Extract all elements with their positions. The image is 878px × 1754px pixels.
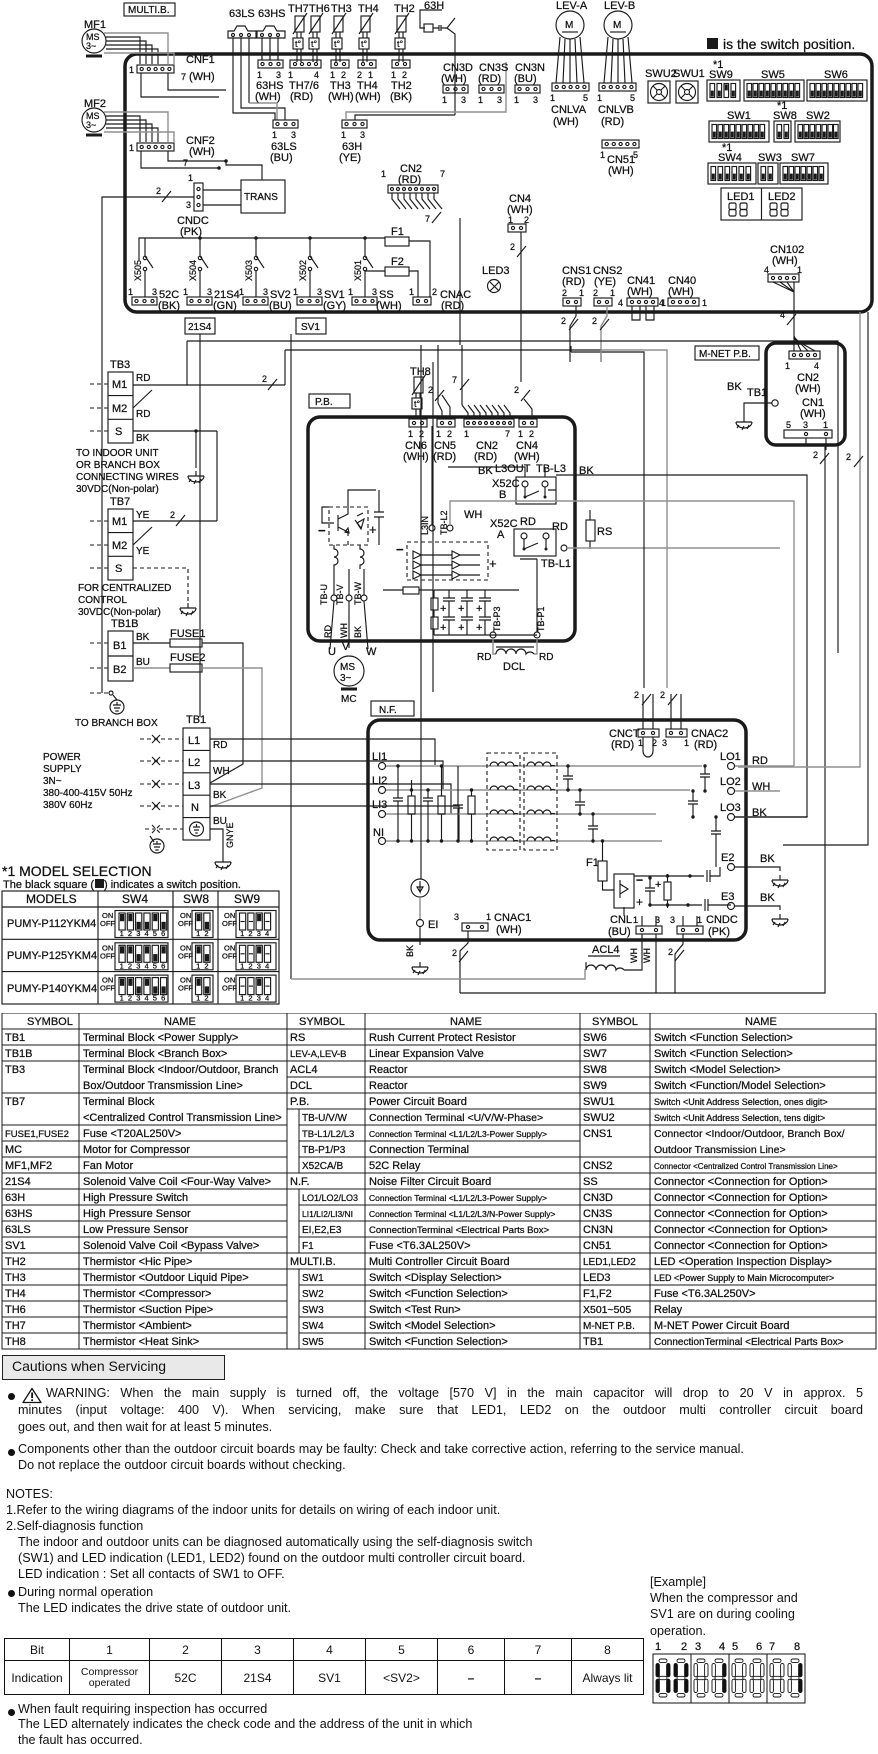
svg-text:(PK): (PK) [708, 926, 730, 938]
svg-text:Connection Terminal <U/V/W-Pha: Connection Terminal <U/V/W-Phase> [369, 1112, 543, 1124]
fuse F2 [379, 256, 418, 297]
switch SW7 [780, 152, 828, 184]
svg-text:63H: 63H [5, 1192, 25, 1204]
svg-text:X505: X505 [133, 260, 143, 281]
multi controller circuit board MULTI.B [125, 54, 872, 312]
svg-text:TH6: TH6 [309, 3, 330, 15]
svg-text:LO1/LO2/LO3: LO1/LO2/LO3 [302, 1193, 358, 1203]
svg-text:N.F.: N.F. [379, 705, 397, 716]
relay contact X501 [353, 238, 373, 297]
svg-text:SYMBOL: SYMBOL [27, 1016, 73, 1028]
TB7 wires [133, 521, 217, 545]
svg-text:(RD): (RD) [601, 116, 624, 128]
svg-text:SW3: SW3 [302, 1305, 324, 1316]
symbol table column 3 [580, 1013, 876, 1349]
relay contact X503 [244, 238, 264, 297]
svg-text:2: 2 [248, 961, 252, 970]
connector CNLVA (WH) [550, 83, 589, 128]
svg-text:MODELS: MODELS [26, 892, 77, 906]
svg-text:LED <Operation Inspection Disp: LED <Operation Inspection Display> [654, 1256, 832, 1268]
svg-text:PUMY-P112YKM4: PUMY-P112YKM4 [7, 918, 96, 930]
connector TH7/6 (RD) [288, 60, 321, 103]
svg-text:SW3: SW3 [758, 152, 782, 164]
fan motor MF2 [82, 98, 106, 135]
svg-text:2: 2 [402, 70, 407, 80]
svg-text:1: 1 [183, 287, 188, 297]
svg-text:TB-L1/L2/L3: TB-L1/L2/L3 [302, 1129, 354, 1140]
svg-text:RD: RD [323, 625, 333, 638]
thermistor TH4 [358, 3, 379, 62]
M-NET P.B. label [695, 346, 759, 360]
svg-text:1: 1 [464, 429, 469, 439]
svg-text:TB-L2: TB-L2 [439, 510, 449, 535]
svg-text:1: 1 [240, 929, 244, 938]
svg-text:7: 7 [425, 214, 430, 224]
svg-text:SYMBOL: SYMBOL [299, 1016, 345, 1028]
TB-P1 terminal [520, 559, 546, 638]
svg-text:4: 4 [314, 70, 319, 80]
svg-text:LED1,LED2: LED1,LED2 [583, 1257, 636, 1268]
svg-text:Thermistor <Compressor>: Thermistor <Compressor> [83, 1288, 211, 1300]
svg-text:The black square (: The black square ( [3, 879, 94, 891]
svg-text:Relay: Relay [654, 1304, 683, 1316]
svg-text:1: 1 [697, 915, 702, 925]
svg-text:Thermistor <Heat Sink>: Thermistor <Heat Sink> [83, 1336, 199, 1348]
svg-text:MULTI.B.: MULTI.B. [290, 1256, 336, 1268]
svg-text:1: 1 [408, 429, 413, 439]
svg-text:Connection Terminal <L1/L2/L3-: Connection Terminal <L1/L2/L3-Power Supp… [369, 1129, 547, 1139]
svg-text:7: 7 [181, 72, 186, 82]
svg-text:CNLVA: CNLVA [551, 104, 587, 116]
thermistor TH7 [288, 3, 309, 62]
svg-text:2: 2 [204, 929, 208, 938]
svg-text:3: 3 [803, 420, 808, 430]
svg-text:1: 1 [293, 287, 298, 297]
connector SV1 (GY) [293, 287, 346, 312]
terminal NI [373, 827, 662, 845]
switch position note [707, 36, 855, 52]
svg-text:2: 2 [562, 288, 567, 298]
svg-text:L1: L1 [188, 735, 200, 747]
svg-text:Motor for Compressor: Motor for Compressor [83, 1144, 190, 1156]
svg-text:2: 2 [592, 316, 597, 326]
svg-text:M1: M1 [112, 379, 127, 391]
svg-text:Fuse <T6.3AL250V>: Fuse <T6.3AL250V> [654, 1288, 756, 1300]
svg-text:30VDC(Non-polar): 30VDC(Non-polar) [76, 484, 159, 495]
connector 63HS (WH) [255, 54, 284, 103]
connector CN6 (WH) [403, 419, 429, 463]
connector CNS2 (YE) [592, 265, 622, 362]
svg-text:2: 2 [529, 429, 534, 439]
svg-text:Linear Expansion Valve: Linear Expansion Valve [369, 1048, 484, 1060]
connector CN5 (RD) [428, 345, 456, 463]
example block [650, 1574, 798, 1639]
svg-text:1: 1 [330, 70, 335, 80]
L3IN [420, 426, 435, 535]
svg-text:3: 3 [136, 929, 140, 938]
svg-text:63HS: 63HS [258, 8, 286, 20]
svg-text:1: 1 [478, 95, 483, 105]
svg-text:TH3: TH3 [331, 3, 352, 15]
svg-text:3: 3 [276, 70, 281, 80]
svg-text:SW6: SW6 [583, 1032, 607, 1044]
svg-text:30VDC(Non-polar): 30VDC(Non-polar) [78, 607, 161, 618]
svg-text:t°: t° [311, 39, 318, 49]
svg-text:CNDC: CNDC [706, 914, 738, 926]
svg-text:2: 2 [813, 450, 818, 460]
svg-text:FUSE1,FUSE2: FUSE1,FUSE2 [5, 1129, 69, 1140]
svg-text:TH2: TH2 [5, 1256, 26, 1268]
power circuit board P.B. [308, 417, 575, 641]
ground TB7 [180, 603, 196, 616]
7-seg pair box [653, 1654, 691, 1703]
svg-text:6: 6 [756, 1641, 762, 1653]
svg-text:CN3N: CN3N [583, 1224, 613, 1236]
svg-text:+: + [440, 622, 446, 634]
svg-text:+: + [458, 622, 464, 634]
svg-text:2: 2 [170, 510, 175, 520]
svg-text:(RD): (RD) [474, 451, 497, 463]
notes [6, 1486, 533, 1583]
connector CN41 (WH) [618, 275, 666, 320]
thermistor TH2 [394, 3, 415, 62]
svg-text:(RD): (RD) [433, 451, 456, 463]
svg-text:Terminal Block <Indoor/Outdoor: Terminal Block <Indoor/Outdoor, Branch [83, 1064, 278, 1076]
svg-text:BK: BK [405, 945, 415, 957]
terminal LI2 [372, 775, 690, 794]
svg-text:Switch <Display Selection>: Switch <Display Selection> [369, 1272, 502, 1284]
svg-text:SW1: SW1 [302, 1273, 324, 1284]
connector CNF1 [129, 54, 215, 83]
svg-text:(RD): (RD) [290, 91, 313, 103]
svg-text:SWU2: SWU2 [583, 1112, 615, 1124]
svg-text:7: 7 [505, 429, 510, 439]
connector 63LS (BU) [270, 120, 298, 164]
svg-text:CN3D: CN3D [583, 1192, 613, 1204]
svg-text:LO1: LO1 [720, 751, 741, 763]
svg-text:1: 1 [129, 65, 134, 75]
svg-text:1: 1 [129, 143, 134, 153]
resistor RS [586, 510, 612, 549]
connector CNCT (RD) [609, 690, 659, 757]
connector CNF2 [129, 135, 215, 168]
switch SW5 [744, 69, 804, 101]
svg-text:3: 3 [372, 287, 377, 297]
svg-text:(GY): (GY) [323, 300, 346, 312]
svg-text:U: U [328, 646, 336, 658]
svg-text:) indicates a switch position.: ) indicates a switch position. [104, 879, 241, 891]
svg-text:TB-L1: TB-L1 [541, 558, 571, 570]
svg-text:SW8: SW8 [583, 1064, 607, 1076]
svg-text:1: 1 [341, 130, 346, 140]
svg-text:1: 1 [486, 912, 491, 922]
svg-text:2: 2 [204, 994, 208, 1003]
fuse F1 [385, 226, 430, 297]
svg-text:(RD): (RD) [441, 300, 464, 312]
connector CN4 (WH) pb [514, 385, 540, 463]
svg-text:3: 3 [257, 929, 261, 938]
svg-text:Reactor: Reactor [369, 1080, 408, 1092]
svg-text:RD: RD [213, 740, 227, 751]
TB1 wires to N.F. [210, 739, 459, 841]
relay contact X502 [298, 238, 318, 297]
svg-text:TB7: TB7 [5, 1096, 25, 1108]
connector CNAC1 (WH) [452, 912, 531, 993]
svg-text:(WH): (WH) [403, 451, 429, 463]
svg-text:TB-L3: TB-L3 [536, 463, 566, 475]
wire right edge down pair [738, 312, 860, 767]
SCHEMATIC SVG [0, 0, 878, 1010]
svg-text:(WH): (WH) [189, 146, 215, 158]
svg-text:(WH): (WH) [514, 451, 540, 463]
svg-text:21S4: 21S4 [5, 1176, 31, 1188]
svg-text:Multi Controller Circuit Board: Multi Controller Circuit Board [369, 1256, 510, 1268]
wires LEV-B [604, 37, 632, 83]
svg-text:RD: RD [477, 652, 491, 663]
svg-text:2: 2 [262, 374, 267, 384]
svg-text:Thermistor <Outdoor Liquid Pip: Thermistor <Outdoor Liquid Pipe> [83, 1272, 249, 1284]
svg-text:(WH): (WH) [627, 286, 653, 298]
svg-text:4: 4 [780, 310, 785, 320]
svg-text:LED1: LED1 [727, 191, 755, 203]
svg-text:Terminal Block: Terminal Block [83, 1096, 155, 1108]
svg-text:1: 1 [442, 95, 447, 105]
svg-text:1: 1 [638, 738, 643, 748]
noise filter circuit board N.F. [368, 720, 746, 940]
wire CNAC down to EI [420, 345, 422, 879]
svg-text:RS: RS [290, 1032, 305, 1044]
svg-text:OFF: OFF [222, 951, 237, 960]
svg-text:1: 1 [240, 961, 244, 970]
svg-text:RD: RD [136, 409, 150, 420]
svg-text:21S4: 21S4 [188, 322, 212, 333]
svg-text:3~: 3~ [86, 120, 96, 130]
svg-text:5: 5 [153, 994, 157, 1003]
svg-text:380-400-415V 50Hz: 380-400-415V 50Hz [43, 788, 133, 799]
table frame [2, 891, 279, 1004]
svg-text:3: 3 [136, 994, 140, 1003]
svg-text:High Pressure Switch: High Pressure Switch [83, 1192, 188, 1204]
bottom bullets [8, 1709, 15, 1716]
rectifier module [396, 542, 497, 580]
relay contact X504 [188, 238, 208, 297]
svg-text:ConnectionTerminal <Electrical: ConnectionTerminal <Electrical Parts Box… [654, 1337, 844, 1348]
svg-text:Connector <Centralized Control: Connector <Centralized Control Transmiss… [654, 1162, 838, 1171]
svg-text:1: 1 [196, 994, 200, 1003]
svg-text:LO2: LO2 [720, 776, 741, 788]
svg-text:SW4: SW4 [122, 892, 148, 906]
svg-text:(YE): (YE) [594, 276, 616, 288]
svg-text:TH4: TH4 [358, 3, 379, 15]
svg-text:SW7: SW7 [583, 1048, 607, 1060]
pressure sensor 63HS [257, 8, 286, 38]
svg-text:1: 1 [550, 93, 555, 103]
svg-text:M-NET P.B.: M-NET P.B. [699, 349, 751, 360]
svg-text:Connector <Connection for Opti: Connector <Connection for Option> [654, 1208, 828, 1220]
LED1 LED2 operation inspection display [721, 188, 802, 220]
svg-text:5: 5 [153, 929, 157, 938]
svg-text:RD: RD [136, 373, 150, 384]
resistor horizontal [383, 587, 433, 594]
svg-text:1: 1 [196, 961, 200, 970]
svg-text:1: 1 [579, 288, 584, 298]
svg-text:BK: BK [353, 626, 363, 638]
svg-text:(BU): (BU) [269, 300, 292, 312]
capacitor bank [431, 590, 537, 635]
svg-text:2: 2 [593, 288, 598, 298]
svg-text:5: 5 [153, 961, 157, 970]
svg-text:+: + [458, 603, 464, 615]
svg-text:SWU2: SWU2 [645, 68, 677, 80]
svg-text:B2: B2 [113, 664, 126, 676]
svg-text:M: M [565, 20, 573, 31]
svg-text:−: − [636, 873, 643, 887]
svg-text:1: 1 [600, 150, 605, 160]
svg-text:(WH): (WH) [441, 73, 467, 85]
svg-text:CNS2: CNS2 [583, 1160, 612, 1172]
svg-text:SV1: SV1 [301, 322, 320, 333]
svg-text:SW6: SW6 [824, 69, 848, 81]
svg-text:TB3: TB3 [5, 1064, 25, 1076]
svg-text:W: W [366, 646, 377, 658]
svg-text:Reactor: Reactor [369, 1064, 408, 1076]
svg-text:TB1B: TB1B [111, 618, 139, 630]
21S4 coil box [185, 318, 215, 334]
svg-text:8: 8 [794, 1641, 800, 1653]
svg-text:P.B.: P.B. [290, 1096, 309, 1108]
svg-text:+: + [476, 622, 482, 634]
svg-text:RD: RD [520, 516, 536, 528]
svg-text:1: 1 [409, 287, 414, 297]
svg-text:TH2: TH2 [394, 3, 415, 15]
svg-text:LI1: LI1 [372, 751, 387, 763]
wire right grey lo2 up [450, 501, 794, 766]
terminal block TB1B [90, 618, 150, 681]
svg-text:WH: WH [339, 623, 349, 638]
svg-text:Low Pressure Sensor: Low Pressure Sensor [83, 1224, 188, 1236]
connector CNL (BU) [608, 914, 662, 938]
connector CN4 (WH) [507, 193, 533, 382]
diode block nf [614, 873, 643, 916]
svg-text:1: 1 [702, 298, 707, 308]
svg-text:+: + [476, 603, 482, 615]
svg-text:BK: BK [760, 853, 775, 865]
svg-text:2: 2 [128, 994, 132, 1003]
svg-text:B: B [499, 489, 506, 501]
svg-text:(BU): (BU) [608, 926, 631, 938]
svg-text:TO BRANCH BOX: TO BRANCH BOX [75, 718, 158, 729]
wire CNS1 down to CNCT [570, 346, 572, 352]
svg-text:LED2: LED2 [768, 191, 796, 203]
terminal block TB3 [90, 359, 150, 444]
svg-text:63HS: 63HS [5, 1208, 33, 1220]
wires MF2 to CNF2 [106, 116, 158, 142]
svg-text:2: 2 [660, 690, 665, 700]
svg-text:6: 6 [161, 994, 165, 1003]
svg-text:4: 4 [265, 961, 269, 970]
svg-text:(WH): (WH) [795, 383, 821, 395]
note to indoor unit [76, 448, 179, 495]
svg-text:2: 2 [846, 452, 851, 462]
svg-text:(WH): (WH) [376, 300, 402, 312]
svg-text:MC: MC [5, 1144, 22, 1156]
wire CN2 bundle vertical [459, 218, 461, 345]
svg-text:ACL4: ACL4 [290, 1064, 318, 1076]
svg-text:SW4: SW4 [718, 152, 742, 164]
svg-text:1: 1 [633, 915, 638, 925]
svg-text:V: V [342, 641, 350, 653]
svg-text:1: 1 [128, 287, 133, 297]
svg-text:Switch <Unit Address Selection: Switch <Unit Address Selection, ones dig… [654, 1097, 828, 1107]
transformer TRANS [241, 180, 285, 213]
svg-text:TH7: TH7 [5, 1320, 26, 1332]
svg-text:Switch <Function/Model Selecti: Switch <Function/Model Selection> [654, 1080, 826, 1092]
symbol table column 2 [287, 1013, 580, 1349]
svg-text:Thermistor <Suction Pipe>: Thermistor <Suction Pipe> [83, 1304, 213, 1316]
connector CN3D (WH) [441, 62, 473, 105]
svg-text:Connection Terminal: Connection Terminal [369, 1144, 469, 1156]
dip cells: row3 [100, 975, 276, 1003]
svg-text:(BU): (BU) [514, 73, 537, 85]
svg-text:OR BRANCH BOX: OR BRANCH BOX [76, 460, 160, 471]
svg-text:X52CA/B: X52CA/B [302, 1161, 343, 1172]
connector TH2 (BK) [390, 60, 412, 103]
svg-text:3: 3 [136, 961, 140, 970]
svg-text:CNLVB: CNLVB [598, 104, 634, 116]
svg-text:TB-W: TB-W [353, 582, 363, 605]
svg-text:2: 2 [432, 287, 437, 297]
TB-U TB-V TB-W terminals [319, 569, 337, 649]
svg-text:SW5: SW5 [761, 69, 785, 81]
svg-text:M-NET Power Circuit Board: M-NET Power Circuit Board [654, 1320, 790, 1332]
svg-text:WH: WH [642, 948, 652, 963]
7seg example [645, 1632, 820, 1712]
switch SW3 [758, 152, 782, 184]
svg-text:Switch <Function Selection>: Switch <Function Selection> [369, 1288, 508, 1300]
svg-text:3N~: 3N~ [43, 776, 62, 787]
wire SV1 down to bottom grey bus [290, 334, 292, 979]
TB-P3 terminal [490, 606, 502, 638]
svg-text:+: + [655, 879, 661, 891]
SV1 coil box [296, 318, 326, 334]
svg-text:52C Relay: 52C Relay [369, 1160, 421, 1172]
svg-text:(WH): (WH) [496, 924, 522, 936]
svg-text:TH6: TH6 [5, 1304, 26, 1316]
wires MF1 to CNF1 [106, 37, 158, 64]
svg-text:1: 1 [348, 287, 353, 297]
wires CNF1/CNF2 join [141, 73, 226, 168]
svg-text:BU: BU [136, 657, 150, 668]
svg-text:EI: EI [428, 919, 438, 931]
svg-text:LI3: LI3 [372, 799, 387, 811]
svg-text:4: 4 [145, 929, 149, 938]
svg-text:1: 1 [188, 173, 193, 183]
svg-text:Solenoid Valve Coil <Four-Way: Solenoid Valve Coil <Four-Way Valve> [83, 1176, 271, 1188]
svg-text:TB-V: TB-V [335, 584, 345, 605]
connector CNAC2 (RD) [660, 690, 728, 751]
svg-text:t°: t° [414, 399, 421, 409]
svg-text:(WH): (WH) [668, 286, 694, 298]
svg-text:(BK): (BK) [158, 300, 180, 312]
pressure switch 63LS [228, 8, 256, 38]
svg-text:YE: YE [136, 510, 150, 521]
svg-text:1: 1 [823, 420, 828, 430]
input filter caps/resistors [393, 764, 475, 842]
TB3 wires [133, 385, 285, 468]
N.F. label [371, 701, 414, 716]
svg-text:Connection Terminal <L1/L2/L3/: Connection Terminal <L1/L2/L3/N-Power Su… [369, 1209, 556, 1219]
svg-text:6: 6 [161, 961, 165, 970]
